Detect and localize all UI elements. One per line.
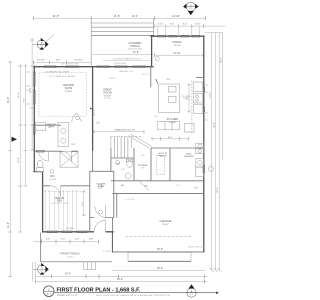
- window kitchen right: [203, 88, 205, 92]
- kitchen wall oven box: [194, 82, 203, 92]
- stairs outline: [111, 136, 132, 160]
- stairs treads: [114, 136, 128, 158]
- svg-text:LAUNDRY: LAUNDRY: [184, 155, 195, 158]
- laundry washer: [196, 143, 204, 148]
- wall master suite left: [33, 66, 35, 172]
- wire front porch dim line: [33, 241, 98, 243]
- kitchen island top edge tick: [156, 79, 158, 84]
- laundry washer circle: [198, 144, 201, 147]
- svg-text:3'-0": 3'-0": [75, 238, 80, 240]
- wall hall north: [111, 180, 156, 182]
- section marker top-left: [32, 38, 49, 50]
- svg-text:(TILE): (TILE): [67, 257, 73, 259]
- wire porch note leader: [103, 59, 150, 61]
- wall stair room top: [90, 170, 114, 172]
- section arrow left mid: [12, 137, 18, 142]
- svg-text:42'-0": 42'-0": [220, 57, 222, 63]
- window porch door 2: [115, 66, 127, 68]
- svg-text:4'-10": 4'-10": [158, 24, 164, 26]
- garage door jamb left: [127, 252, 129, 261]
- door label master: [76, 116, 80, 120]
- door gap wic entry: [62, 150, 72, 152]
- toilet master wc: [37, 160, 43, 167]
- svg-text:16070 O.H. DOOR: 16070 O.H. DOOR: [188, 247, 205, 249]
- toilet powder tank: [126, 159, 133, 162]
- storage diagonal DN: [137, 179, 149, 191]
- svg-text:4'-6": 4'-6": [166, 79, 171, 81]
- wire master top dim arrows: [33, 60, 91, 64]
- wire top dim ticks: [33, 16, 205, 20]
- svg-text:2'-8": 2'-8": [121, 169, 125, 171]
- wire bottom dim line garage: [113, 270, 205, 272]
- door label stair: [99, 210, 103, 214]
- wall entry left: [89, 218, 91, 232]
- wall left jog: [33, 171, 42, 173]
- wire porch interior dim line: [92, 54, 154, 56]
- kitchen fridge: [185, 124, 195, 133]
- door label office wall: [98, 184, 102, 188]
- garage door jamb right: [190, 252, 192, 261]
- svg-text:KITCHEN: KITCHEN: [167, 117, 179, 121]
- wall wic bottom / office top: [42, 185, 90, 187]
- window master top 1: [44, 66, 56, 68]
- window master left 2: [33, 90, 35, 104]
- note texts misc: [61, 63, 205, 253]
- svg-text:11'x12' (9'-0" CLG): 11'x12' (9'-0" CLG): [51, 203, 68, 205]
- garage door panel line: [128, 260, 191, 262]
- wall master bath top: [34, 124, 61, 126]
- wall bath bottom / wic top: [33, 150, 78, 152]
- office floor hatch: [45, 190, 76, 230]
- svg-text:6'-8": 6'-8": [46, 238, 51, 240]
- svg-text:31'-0": 31'-0": [7, 222, 10, 228]
- wire porch roof fascia line 2: [91, 26, 154, 28]
- wire dining window extension lines: [158, 26, 200, 35]
- svg-text:5'-0": 5'-0": [71, 144, 76, 146]
- svg-text:VENT: VENT: [183, 98, 189, 100]
- svg-text:WIC: WIC: [50, 175, 55, 178]
- svg-text:9'-2": 9'-2": [82, 202, 84, 207]
- title bubble circle: [44, 286, 55, 297]
- svg-text:36'-0": 36'-0": [157, 248, 163, 251]
- wall powder right / storage left: [133, 148, 135, 181]
- svg-text:21'x22': 21'x22': [162, 224, 169, 226]
- svg-text:14'-6 1/2": 14'-6 1/2": [94, 108, 96, 116]
- wall stair room left: [89, 171, 91, 217]
- svg-text:36'-0": 36'-0": [157, 267, 163, 270]
- wire right dim bottom ticks: [209, 268, 221, 272]
- kitchen island: [159, 84, 180, 113]
- svg-text:16'x19': 16'x19': [104, 96, 111, 98]
- wire left dim line 4: [31, 38, 33, 150]
- svg-text:21'-8": 21'-8": [114, 14, 121, 18]
- window dining 3: [181, 35, 189, 37]
- svg-text:21'-8": 21'-8": [53, 14, 60, 18]
- wire dining interior dim line: [155, 54, 204, 56]
- svg-text:12'x13': 12'x13': [174, 45, 181, 47]
- svg-text:2x8 F.J.: 2x8 F.J.: [110, 78, 117, 80]
- wall office left: [42, 172, 44, 233]
- vanity sink 1: [61, 128, 66, 133]
- svg-text:GARAGE: GARAGE: [160, 219, 172, 223]
- wire master top dim line: [33, 61, 91, 63]
- garage door dashed header: [126, 235, 191, 237]
- wire bottom dim ticks 2: [35, 280, 205, 284]
- wire porch roof fascia line 1: [91, 22, 154, 24]
- door arc front entry: [94, 220, 106, 232]
- svg-text:16'-4": 16'-4": [30, 87, 32, 93]
- wall stair room bottom: [90, 217, 114, 219]
- wire left dim line 3: [24, 64, 26, 186]
- title underline with arrow: [55, 292, 217, 294]
- svg-text:9'-0": 9'-0": [168, 137, 173, 139]
- door gap stair room: [95, 217, 106, 219]
- door arc stair room: [95, 206, 106, 218]
- wall hall left: [92, 151, 94, 172]
- window dining 1: [158, 35, 166, 37]
- kitchen cooktop box: [194, 94, 203, 104]
- svg-text:16" O.C.: 16" O.C.: [142, 74, 150, 76]
- svg-text:DEN: DEN: [57, 200, 62, 203]
- wire left dim ticks: [8, 40, 34, 277]
- door gap bath: [62, 124, 72, 126]
- svg-text:GREAT RM 14'-6 1/2": GREAT RM 14'-6 1/2": [114, 129, 135, 132]
- laundry dryer: [196, 149, 204, 154]
- wall garage left lower: [111, 232, 113, 253]
- wall powder left: [110, 148, 112, 171]
- svg-text:FRONT PORCH: FRONT PORCH: [61, 252, 80, 256]
- laundry sink box: [196, 159, 204, 168]
- office ceiling dashed: [44, 191, 84, 193]
- wire porch left edge: [90, 19, 92, 66]
- svg-text:2x6 TREATED SILL PLATE: 2x6 TREATED SILL PLATE: [45, 70, 70, 73]
- svg-text:PR: PR: [116, 164, 119, 166]
- svg-text:14'-10": 14'-10": [173, 52, 181, 55]
- door gap front entry: [94, 231, 106, 234]
- wall powder top: [111, 157, 134, 159]
- window wic bottom small: [37, 150, 45, 152]
- laundry cabinet: [196, 167, 204, 177]
- wall dining kitchen stub: [196, 77, 204, 79]
- svg-text:A1.1: A1.1: [47, 292, 52, 295]
- svg-text:12'-4": 12'-4": [132, 15, 138, 18]
- wire bottom dim line overall 1: [35, 276, 207, 278]
- svg-text:9'-0" CLG: 9'-0" CLG: [126, 199, 135, 201]
- wire front porch dim ticks: [42, 240, 99, 244]
- door arc bath wc: [39, 151, 49, 161]
- door label powder: [116, 161, 120, 165]
- window dining 2: [169, 35, 177, 37]
- svg-text:2x12 RIDGE BEAM W/ 2x6 R.R.: 2x12 RIDGE BEAM W/ 2x6 R.R.: [113, 58, 142, 61]
- wire porch roof fascia line 3: [91, 30, 154, 32]
- svg-text:42'-0": 42'-0": [7, 97, 10, 103]
- svg-text:2x6 WALL: 2x6 WALL: [65, 227, 75, 230]
- door gap office entry: [50, 185, 61, 187]
- wire great room dim line: [94, 131, 144, 133]
- svg-text:21'-8": 21'-8": [133, 51, 139, 54]
- window office bottom 2: [62, 231, 72, 233]
- wall laundry bottom: [156, 180, 204, 182]
- svg-text:13'x16': 13'x16': [65, 91, 72, 93]
- window master left 1: [33, 72, 35, 86]
- svg-text:22'-4": 22'-4": [214, 122, 216, 128]
- svg-text:DW: DW: [154, 116, 157, 118]
- vanity master bath: [58, 122, 69, 146]
- tray ceiling dashed master: [39, 73, 87, 116]
- window porch door 3: [133, 66, 145, 68]
- svg-text:PORCH: PORCH: [130, 44, 139, 48]
- svg-text:13'-0": 13'-0": [209, 92, 211, 98]
- svg-text:6'-0 1/2": 6'-0 1/2": [75, 60, 83, 62]
- svg-text:5'x8': 5'x8': [141, 155, 146, 157]
- stairs cut diagonal: [128, 134, 152, 148]
- svg-text:8'-0": 8'-0": [23, 98, 25, 103]
- kitchen counter lower right: [194, 105, 203, 114]
- wire left dim line 1: [9, 61, 11, 277]
- svg-text:PANTRY: PANTRY: [159, 154, 168, 157]
- kitchen island sink: [169, 87, 177, 93]
- wall master suite top: [33, 66, 91, 68]
- svg-text:6'-0 1/2": 6'-0 1/2": [37, 60, 45, 62]
- window laundry right: [203, 165, 205, 173]
- wall storage right: [150, 148, 152, 181]
- wall stair room right: [113, 171, 115, 217]
- svg-text:12' CLG: 12' CLG: [104, 98, 112, 100]
- wire right dims connector: [205, 32, 223, 34]
- toilet powder: [127, 160, 133, 167]
- sink powder: [125, 173, 131, 179]
- svg-text:3'-0": 3'-0": [176, 185, 180, 187]
- kitchen cooktop burners: [196, 95, 199, 98]
- svg-text:12'-8": 12'-8": [18, 157, 20, 163]
- window bath left: [33, 125, 35, 135]
- wire kitchen island dim line: [188, 84, 190, 113]
- door arc wic: [62, 151, 72, 161]
- window dining 4: [192, 35, 200, 37]
- wall house bottom front: [43, 231, 114, 233]
- wire office hall dim line: [83, 191, 85, 216]
- wall house top behind porch: [92, 66, 154, 68]
- shower master bath: [35, 123, 45, 131]
- wall dining top: [150, 35, 204, 37]
- svg-text:SCALE: 1/4" = 1'-0": SCALE: 1/4" = 1'-0": [57, 294, 78, 297]
- svg-text:STAIR: STAIR: [98, 185, 105, 188]
- pantry shelves dashed: [157, 156, 165, 175]
- svg-text:46'-0": 46'-0": [117, 278, 123, 281]
- wall pantry right: [169, 148, 171, 181]
- kitchen lower counter divider: [165, 122, 172, 130]
- laundry sink circle: [198, 161, 202, 165]
- wire right dim line 1: [210, 33, 212, 270]
- wall garage bottom: [112, 251, 204, 253]
- symbol circle porch: [155, 57, 159, 61]
- window nook right: [203, 108, 205, 112]
- wire porch right edge: [153, 19, 155, 36]
- kitchen wall counter dashed: [191, 80, 193, 135]
- wire porch deck edge: [91, 34, 154, 36]
- door arc office: [50, 186, 61, 197]
- laundry dryer circle: [198, 149, 201, 152]
- wire kitchen dim line: [152, 138, 189, 140]
- toilet tank: [37, 168, 44, 172]
- door arc master entry: [72, 113, 82, 122]
- wall garage front: [112, 192, 203, 194]
- svg-text:4'-10": 4'-10": [195, 24, 201, 26]
- vanity sink 2: [61, 138, 66, 143]
- wall great room left: [92, 67, 94, 151]
- svg-text:3'-0": 3'-0": [61, 238, 66, 240]
- wall kitchen west: [150, 67, 152, 88]
- roof pitch mark: [46, 34, 55, 42]
- svg-text:DN: DN: [144, 186, 148, 188]
- section marker bottom-right: [185, 284, 198, 297]
- kitchen lower counter: [158, 122, 180, 130]
- svg-text:NOTE: VERIFY HOUSE DIMENSIONS: NOTE: VERIFY HOUSE DIMENSIONS W/ PLAN BE…: [96, 294, 170, 297]
- wire right dim line 4: [221, 33, 223, 161]
- door label wic circle: [50, 170, 54, 174]
- wire right dim line 2: [215, 33, 217, 270]
- wire bottom dim ticks 1: [35, 275, 205, 279]
- svg-text:16'-0": 16'-0": [65, 272, 71, 275]
- svg-text:RG: RG: [121, 185, 125, 187]
- svg-text:22'-0": 22'-0": [217, 187, 219, 193]
- wall garage left: [116, 193, 118, 217]
- section marker top-right: [183, 2, 199, 15]
- wic shelving X: [60, 152, 78, 167]
- front porch steps: [84, 262, 96, 270]
- svg-text:3'-0": 3'-0": [183, 24, 188, 26]
- svg-text:DINING: DINING: [172, 40, 181, 44]
- svg-text:5'-8": 5'-8": [56, 60, 61, 62]
- section marker bottom-left: [33, 263, 49, 275]
- svg-text:3'-0": 3'-0": [170, 24, 175, 26]
- svg-text:10'x13': 10'x13': [169, 122, 176, 124]
- svg-text:5'x8': 5'x8': [141, 168, 145, 170]
- svg-text:21'-4": 21'-4": [18, 92, 20, 98]
- window master top 2: [66, 66, 78, 68]
- kitchen island range: [169, 96, 177, 102]
- wire top dim line 2 (dining windows): [155, 25, 226, 27]
- laundry window ring: [208, 166, 213, 171]
- wall right exterior: [203, 35, 205, 252]
- svg-text:ROOM: ROOM: [103, 91, 111, 95]
- wall garage door sill: [128, 251, 191, 253]
- svg-text:SUITE: SUITE: [65, 86, 73, 90]
- svg-text:(2) R&S: (2) R&S: [49, 179, 57, 181]
- wall kitchen south: [151, 147, 204, 149]
- wire left dim line 2: [19, 64, 21, 232]
- svg-text:(3) 2x10 HDR: (3) 2x10 HDR: [114, 63, 127, 65]
- wire bottom dim line overall 2: [35, 281, 207, 283]
- wire right dim line 3: [218, 33, 220, 270]
- svg-text:5/8" GYP. BD. TYP.: 5/8" GYP. BD. TYP.: [61, 64, 79, 66]
- window office bottom 1: [47, 231, 57, 233]
- svg-text:6'-8": 6'-8": [89, 238, 94, 240]
- wire top dimension line: [33, 17, 205, 19]
- window office bottom 3: [77, 231, 87, 233]
- svg-text:BATH: BATH: [48, 126, 54, 129]
- svg-text:10 PT LINEAL BOX HEADER: 10 PT LINEAL BOX HEADER: [49, 75, 76, 78]
- wall tick arrow great room: [90, 108, 92, 110]
- svg-text:14'-10": 14'-10": [172, 14, 180, 18]
- svg-text:4" CONC.: 4" CONC.: [103, 251, 112, 253]
- stairs dashed header: [111, 135, 141, 137]
- window porch door 1: [97, 66, 109, 68]
- wall dining left: [151, 35, 153, 66]
- svg-text:VAULTED CLG: VAULTED CLG: [119, 70, 133, 73]
- wire right wall window ticks: [205, 85, 208, 120]
- wire bottom left dim verticals: [33, 262, 36, 282]
- wic shelving box: [60, 152, 78, 167]
- front porch slab edge: [41, 233, 112, 262]
